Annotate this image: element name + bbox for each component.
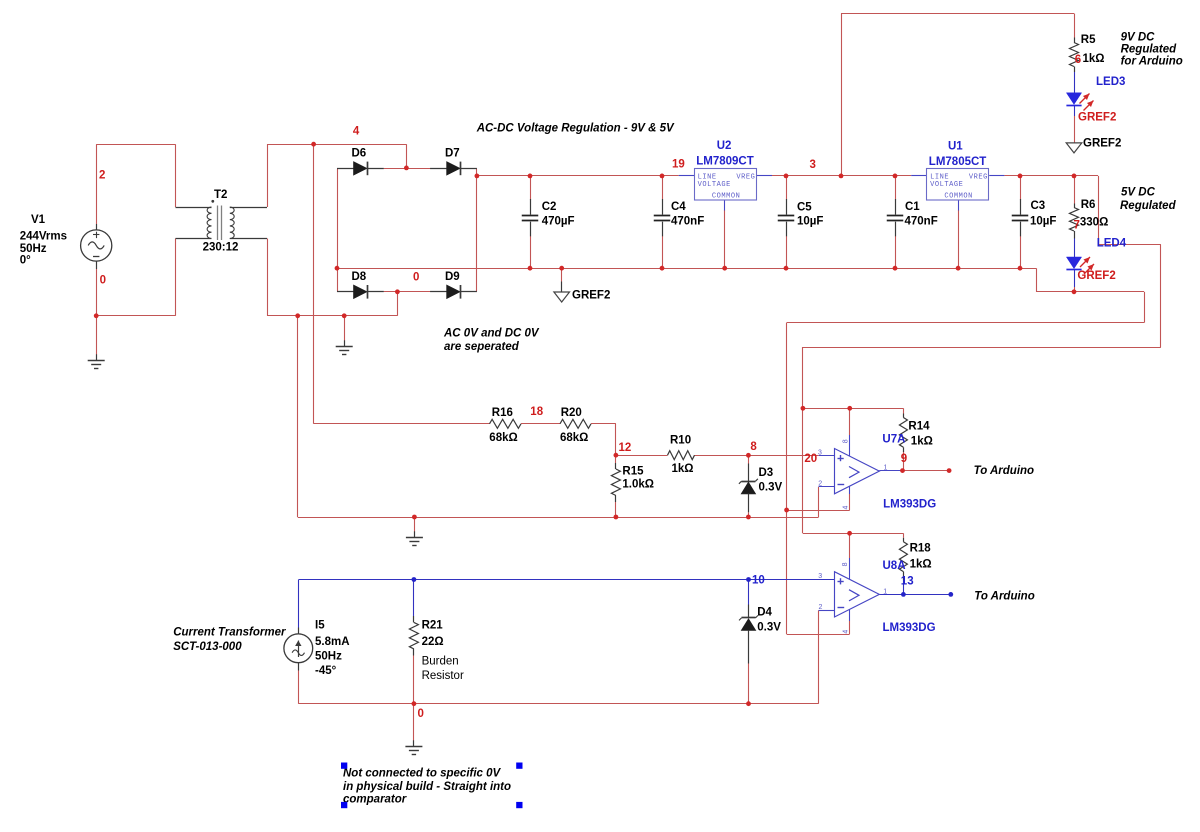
svg-text:To Arduino: To Arduino [974, 591, 1034, 603]
svg-text:0.3V: 0.3V [757, 622, 781, 634]
svg-text:Current Transformer: Current Transformer [173, 627, 286, 639]
svg-text:GREF2: GREF2 [1077, 270, 1115, 282]
svg-text:0.3V: 0.3V [759, 482, 783, 494]
svg-text:V1: V1 [31, 214, 46, 226]
svg-text:Not connected to specific 0V: Not connected to specific 0V [343, 768, 502, 780]
svg-text:5V DC: 5V DC [1121, 187, 1156, 199]
svg-text:D4: D4 [757, 607, 772, 619]
svg-text:4: 4 [843, 506, 850, 510]
svg-text:LED3: LED3 [1096, 76, 1125, 88]
svg-text:330Ω: 330Ω [1080, 217, 1108, 229]
svg-text:R16: R16 [492, 407, 513, 419]
svg-text:13: 13 [901, 576, 914, 588]
svg-text:19: 19 [672, 159, 685, 171]
svg-text:C2: C2 [542, 201, 557, 213]
svg-text:0: 0 [100, 275, 106, 287]
svg-text:VOLTAGE: VOLTAGE [930, 181, 963, 189]
svg-text:-45°: -45° [315, 665, 337, 677]
svg-text:VREG: VREG [969, 174, 988, 182]
svg-text:VOLTAGE: VOLTAGE [698, 181, 731, 189]
svg-text:0: 0 [413, 272, 419, 284]
svg-text:are seperated: are seperated [444, 341, 520, 353]
svg-text:I5: I5 [315, 620, 325, 632]
svg-text:0: 0 [418, 708, 424, 720]
svg-text:R14: R14 [908, 421, 930, 433]
svg-text:Regulated: Regulated [1121, 44, 1178, 56]
svg-text:1kΩ: 1kΩ [1083, 53, 1105, 65]
svg-text:18: 18 [530, 406, 543, 418]
svg-text:50Hz: 50Hz [20, 243, 47, 255]
svg-text:6: 6 [1075, 54, 1081, 66]
svg-text:1: 1 [883, 588, 887, 595]
svg-text:R5: R5 [1081, 34, 1096, 46]
svg-text:VREG: VREG [736, 174, 755, 182]
svg-text:LM393DG: LM393DG [883, 499, 936, 511]
svg-text:1kΩ: 1kΩ [911, 436, 933, 448]
svg-text:8: 8 [842, 562, 849, 566]
svg-text:C5: C5 [797, 202, 812, 214]
svg-text:comparator: comparator [343, 794, 407, 806]
svg-text:C4: C4 [671, 201, 686, 213]
svg-text:D6: D6 [352, 147, 367, 159]
svg-text:3: 3 [818, 450, 822, 457]
svg-text:20: 20 [804, 453, 817, 465]
svg-text:LM7805CT: LM7805CT [929, 156, 987, 168]
svg-text:D8: D8 [352, 271, 367, 283]
svg-text:R21: R21 [422, 620, 444, 632]
svg-text:2: 2 [818, 480, 822, 487]
svg-text:10µF: 10µF [1030, 216, 1056, 228]
svg-text:0°: 0° [20, 255, 31, 267]
svg-text:22Ω: 22Ω [422, 636, 444, 648]
svg-text:D3: D3 [759, 467, 774, 479]
svg-text:230:12: 230:12 [203, 242, 239, 254]
svg-text:for Arduino: for Arduino [1121, 56, 1183, 68]
svg-text:7: 7 [1074, 220, 1080, 232]
svg-text:9: 9 [901, 453, 907, 465]
svg-text:AC 0V and DC 0V: AC 0V and DC 0V [443, 328, 540, 340]
svg-text:Resistor: Resistor [422, 670, 464, 682]
svg-text:10µF: 10µF [797, 216, 823, 228]
svg-text:AC-DC Voltage Regulation - 9V: AC-DC Voltage Regulation - 9V & 5V [476, 123, 675, 135]
svg-text:R10: R10 [670, 435, 691, 447]
svg-text:D7: D7 [445, 147, 460, 159]
svg-text:12: 12 [619, 442, 632, 454]
svg-text:470nF: 470nF [905, 216, 938, 228]
svg-text:244Vrms: 244Vrms [20, 231, 67, 243]
svg-text:Burden: Burden [422, 656, 459, 668]
svg-text:U8A: U8A [883, 560, 906, 572]
svg-text:C3: C3 [1031, 200, 1046, 212]
svg-text:C1: C1 [905, 201, 920, 213]
svg-text:8: 8 [750, 441, 757, 453]
svg-text:U2: U2 [717, 140, 732, 152]
svg-text:1: 1 [884, 465, 888, 472]
svg-text:LM7809CT: LM7809CT [696, 156, 754, 168]
svg-text:GREF2: GREF2 [572, 290, 610, 302]
svg-text:470nF: 470nF [671, 216, 704, 228]
svg-text:2: 2 [819, 604, 823, 611]
svg-text:10: 10 [752, 575, 765, 587]
svg-text:4: 4 [353, 126, 360, 138]
svg-text:COMMON: COMMON [944, 193, 973, 201]
svg-text:COMMON: COMMON [712, 193, 741, 201]
svg-text:LM393DG: LM393DG [883, 622, 936, 634]
svg-text:470µF: 470µF [542, 216, 575, 228]
svg-text:T2: T2 [214, 189, 227, 201]
svg-text:GREF2: GREF2 [1078, 112, 1116, 124]
svg-text:U1: U1 [948, 141, 963, 153]
svg-text:4: 4 [842, 630, 849, 634]
svg-text:LED4: LED4 [1097, 238, 1127, 250]
svg-text:68kΩ: 68kΩ [560, 432, 588, 444]
svg-text:9V DC: 9V DC [1121, 32, 1156, 44]
svg-text:R15: R15 [622, 466, 644, 478]
svg-text:3: 3 [818, 573, 822, 580]
svg-text:8: 8 [842, 439, 849, 443]
svg-text:GREF2: GREF2 [1083, 138, 1121, 150]
svg-text:R18: R18 [910, 543, 932, 555]
svg-text:3: 3 [810, 159, 816, 171]
svg-text:1kΩ: 1kΩ [910, 559, 932, 571]
svg-text:1.0kΩ: 1.0kΩ [622, 479, 654, 491]
svg-text:1kΩ: 1kΩ [672, 463, 694, 475]
svg-text:68kΩ: 68kΩ [489, 432, 517, 444]
svg-text:2: 2 [99, 170, 105, 182]
svg-text:D9: D9 [445, 271, 460, 283]
svg-text:R6: R6 [1081, 199, 1096, 211]
svg-text:5.8mA: 5.8mA [315, 636, 350, 648]
svg-text:R20: R20 [561, 407, 582, 419]
svg-text:Regulated: Regulated [1120, 200, 1177, 212]
svg-text:U7A: U7A [882, 434, 905, 446]
svg-text:SCT-013-000: SCT-013-000 [173, 641, 242, 653]
svg-text:To Arduino: To Arduino [974, 465, 1034, 477]
svg-text:50Hz: 50Hz [315, 651, 342, 663]
svg-text:in physical build - Straight i: in physical build - Straight into [343, 781, 511, 793]
